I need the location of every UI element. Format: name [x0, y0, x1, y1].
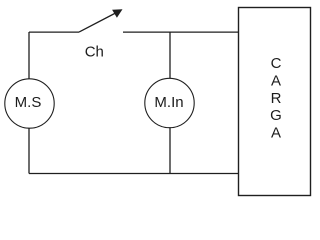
svg-text:M.S: M.S: [15, 94, 42, 111]
svg-text:M.In: M.In: [154, 94, 183, 111]
svg-text:A: A: [271, 72, 281, 89]
svg-text:C: C: [271, 55, 282, 72]
svg-text:R: R: [271, 90, 282, 107]
svg-text:Ch: Ch: [85, 43, 104, 60]
svg-text:A: A: [271, 125, 281, 142]
svg-text:G: G: [270, 107, 282, 124]
